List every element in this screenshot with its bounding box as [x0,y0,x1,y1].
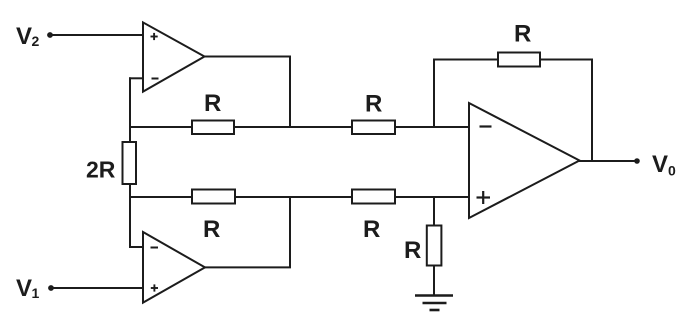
svg-text:R: R [404,237,421,264]
resistor R3 [192,190,235,204]
wire bottom row segment 2 [235,196,352,198]
resistor R6 [427,226,442,266]
U2 + input label [151,284,158,291]
wire U3 output [579,160,637,162]
wire top row segment 1 [129,126,192,128]
wire top row segment 2 [234,126,352,128]
svg-text:2: 2 [32,33,40,49]
svg-text:0: 0 [668,163,676,179]
svg-text:R: R [204,90,221,117]
svg-text:V: V [652,151,668,178]
node V2 [16,23,53,50]
wire bottom row segment 3 [395,196,469,198]
op-amp U2 [143,232,205,303]
wire left vertical lower [129,184,131,248]
resistor 2R [123,142,137,184]
svg-text:V: V [16,275,32,302]
wire ground branch lower [433,266,435,296]
wire U3 feedback left vertical [433,60,435,129]
node V0 [634,151,676,179]
wire U1 output to node F [205,57,291,128]
wire U3 feedback top segment 2 [540,59,592,61]
ground [415,296,453,311]
wire U3 feedback top segment 1 [433,59,498,61]
svg-text:R: R [514,21,531,48]
U1 + input label [151,33,158,40]
node V1 [16,275,54,302]
wire U2 output to node G [205,197,290,267]
wire U2 inverting stub [129,246,143,248]
op-amp U3 [469,103,580,218]
U1 - input label [152,78,159,80]
U3 - input label [480,125,492,127]
op-amp U1 [143,22,205,91]
wire ground branch upper [433,196,435,226]
U2 - input label [151,247,159,249]
wire bottom row segment 1 [129,196,192,198]
svg-text:2R: 2R [86,157,116,183]
wire V1 input [53,287,143,289]
wire U1 inverting stub [129,77,143,79]
svg-text:R: R [203,216,220,243]
svg-text:1: 1 [32,285,40,301]
wire left vertical upper [129,77,131,143]
wire V2 input [52,34,143,36]
wire U3 feedback right vertical [591,59,593,162]
U3 + input label [477,191,491,204]
resistor R1 [192,121,234,135]
resistor R5 [498,53,540,67]
svg-text:R: R [363,216,380,243]
resistor R2 [352,121,395,135]
resistor R4 [352,190,395,204]
wire top row segment 3 [395,126,469,128]
svg-text:V: V [16,23,32,50]
svg-text:R: R [365,91,382,118]
